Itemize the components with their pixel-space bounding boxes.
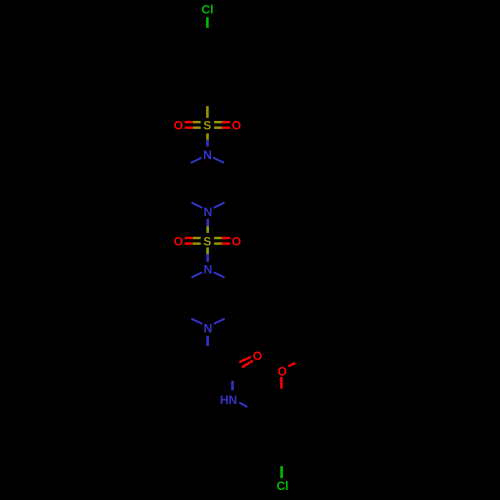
svg-text:N: N (203, 148, 212, 162)
bond N4-C up-right (N half) (214, 319, 225, 324)
bond N2-C5 up-right (N half) (214, 203, 225, 208)
bond C1-Cl1 (Cl half) (206, 17, 209, 28)
bond N2-C3 up-left (N half) (191, 203, 202, 208)
bond S2-N3 (S half) (206, 247, 209, 254)
double bond S2=O2L upper line (185, 237, 201, 239)
svg-text:Cl: Cl (202, 3, 214, 17)
bond N3-C down-left (N half) (191, 272, 202, 277)
double bond S1=O1R upper line (214, 121, 230, 123)
svg-text:HN: HN (220, 393, 237, 407)
double bond S1=O1L upper line (185, 121, 201, 123)
svg-text:O: O (232, 119, 241, 133)
svg-text:O: O (174, 119, 183, 133)
bond N3-C down-right (N half) (214, 272, 225, 277)
svg-text:N: N (204, 205, 213, 219)
svg-text:O: O (278, 364, 287, 378)
svg-text:S: S (203, 119, 211, 133)
svg-text:N: N (204, 263, 213, 277)
double bond S1=O1R lower line (214, 126, 230, 128)
bond N2-S2 (S half) (206, 226, 209, 233)
double bond S2=O2L lower line (185, 242, 201, 244)
bond N2-S2 (N half) (206, 219, 209, 226)
bond S1-N1 (N half) (206, 140, 209, 147)
bond C5'-Cl2 (Cl half) (280, 466, 283, 478)
bond N1-C6 down-right (N half) (213, 158, 224, 163)
double bond C=O3 carbonyl inner line (O half) (242, 361, 253, 368)
svg-text:N: N (204, 321, 213, 335)
double bond S1=O1L lower line (185, 126, 201, 128)
bond C-N5 amide (N half) (231, 381, 234, 391)
double bond C=O3 carbonyl outer line (O half) (239, 357, 251, 362)
svg-text:O: O (232, 235, 241, 249)
bond S2-N3 (N half) (206, 254, 209, 262)
bond O4-C2' (O half) (280, 377, 283, 389)
bond C4-S1 (S half) (206, 106, 209, 118)
bond S1-N1 (S half) (206, 133, 209, 139)
svg-text:O: O (253, 349, 262, 363)
double bond S2=O2R upper line (214, 237, 230, 239)
double bond S2=O2R lower line (214, 242, 230, 244)
bond N5-C1' (N half) (239, 403, 247, 408)
svg-text:Cl: Cl (277, 479, 289, 493)
bond N4-CH2 (N half) (206, 336, 209, 346)
bond N1-C2 down-left (N half) (191, 158, 202, 163)
bond N4-C up-left (N half) (191, 319, 202, 324)
svg-text:S: S (203, 235, 211, 249)
bond O4-CH3 (O half) (288, 363, 295, 366)
svg-text:O: O (174, 235, 183, 249)
